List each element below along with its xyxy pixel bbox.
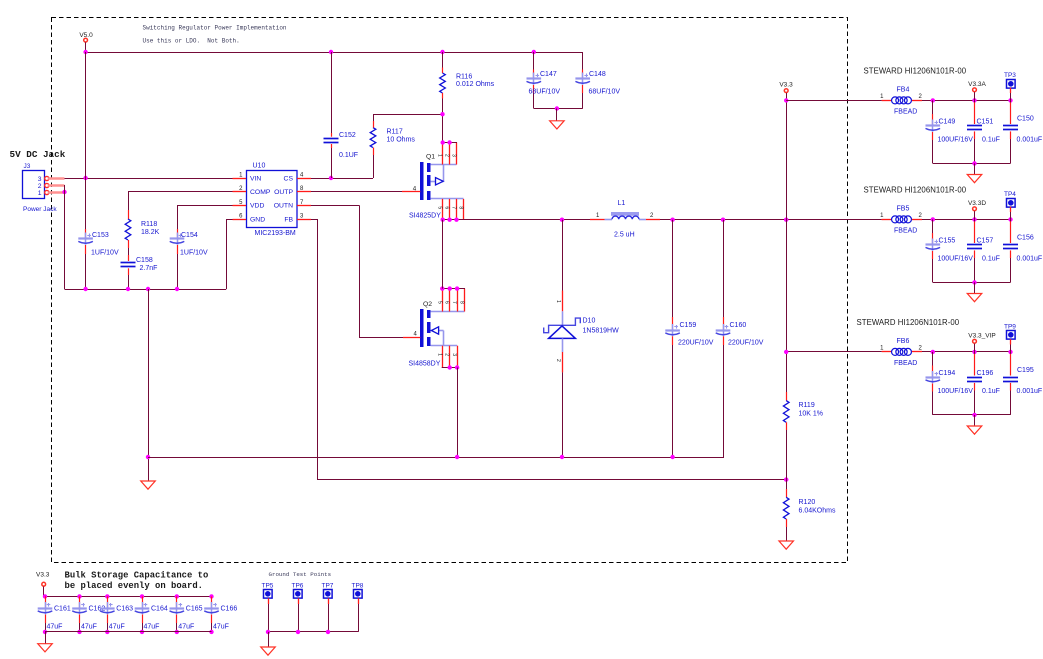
- svg-text:C149: C149: [939, 119, 956, 126]
- svg-text:6: 6: [444, 301, 450, 304]
- svg-text:FBEAD: FBEAD: [894, 109, 917, 116]
- svg-text:Switching Regulator Power Impl: Switching Regulator Power Implementation: [143, 25, 287, 32]
- svg-text:3: 3: [451, 353, 457, 356]
- svg-text:FB: FB: [284, 216, 293, 223]
- svg-text:2.7nF: 2.7nF: [140, 265, 158, 272]
- svg-text:Bulk Storage Capacitance to: Bulk Storage Capacitance to: [65, 571, 209, 581]
- svg-text:5V DC Jack: 5V DC Jack: [10, 149, 66, 160]
- svg-text:Use this or LDO. Not Both.: Use this or LDO. Not Both.: [143, 38, 240, 45]
- svg-text:C165: C165: [186, 606, 203, 613]
- svg-text:STEWARD HI1206N101R-00: STEWARD HI1206N101R-00: [857, 318, 960, 327]
- svg-text:2: 2: [555, 359, 561, 362]
- svg-text:C147: C147: [540, 71, 557, 78]
- svg-text:VIN: VIN: [250, 175, 261, 182]
- svg-text:C161: C161: [54, 606, 71, 613]
- svg-text:V3.3: V3.3: [779, 82, 793, 89]
- svg-text:CS: CS: [284, 175, 294, 182]
- svg-text:R120: R120: [799, 499, 816, 506]
- svg-text:C164: C164: [151, 606, 168, 613]
- svg-text:8: 8: [459, 301, 465, 304]
- svg-text:TP4: TP4: [1004, 191, 1016, 198]
- svg-text:Ground Test Points: Ground Test Points: [269, 571, 332, 578]
- svg-text:220UF/10V: 220UF/10V: [728, 340, 764, 347]
- svg-text:C163: C163: [116, 606, 133, 613]
- svg-text:1: 1: [436, 353, 442, 356]
- svg-text:C166: C166: [221, 606, 238, 613]
- svg-text:0.1UF: 0.1UF: [339, 152, 358, 159]
- svg-text:47uF: 47uF: [213, 624, 229, 631]
- svg-text:FBEAD: FBEAD: [894, 228, 917, 235]
- svg-text:0.012 Ohms: 0.012 Ohms: [456, 81, 495, 88]
- svg-text:47uF: 47uF: [144, 624, 160, 631]
- svg-text:TP9: TP9: [1004, 324, 1016, 331]
- svg-text:2: 2: [38, 183, 42, 190]
- svg-text:TP6: TP6: [292, 583, 304, 590]
- svg-text:6: 6: [444, 206, 450, 209]
- svg-text:1: 1: [555, 300, 561, 303]
- svg-text:0.1uF: 0.1uF: [982, 388, 1000, 395]
- svg-text:SI4825DY: SI4825DY: [409, 213, 441, 220]
- svg-text:C148: C148: [589, 71, 606, 78]
- svg-text:MIC2193-BM: MIC2193-BM: [255, 230, 296, 237]
- svg-text:47uF: 47uF: [178, 624, 194, 631]
- svg-text:4: 4: [413, 186, 417, 193]
- svg-text:R118: R118: [141, 221, 157, 228]
- svg-text:FB6: FB6: [897, 338, 910, 345]
- svg-text:D10: D10: [583, 318, 596, 325]
- svg-text:C155: C155: [939, 238, 956, 245]
- svg-text:C153: C153: [92, 232, 109, 239]
- svg-text:FBEAD: FBEAD: [894, 360, 917, 367]
- svg-text:V3.3A: V3.3A: [968, 81, 986, 88]
- svg-text:5: 5: [436, 301, 442, 304]
- svg-text:TP3: TP3: [1004, 72, 1016, 79]
- svg-text:0.1uF: 0.1uF: [982, 137, 1000, 144]
- svg-text:C160: C160: [730, 322, 747, 329]
- svg-text:V3.3_VIP: V3.3_VIP: [968, 333, 995, 340]
- svg-text:Power Jack: Power Jack: [23, 206, 57, 213]
- svg-text:18.2K: 18.2K: [141, 229, 160, 236]
- svg-text:TP5: TP5: [262, 583, 274, 590]
- svg-text:Q2: Q2: [423, 301, 432, 308]
- svg-text:C157: C157: [977, 238, 994, 245]
- svg-text:VDD: VDD: [250, 203, 264, 210]
- svg-text:J3: J3: [24, 163, 31, 170]
- svg-text:OUTN: OUTN: [274, 203, 293, 210]
- svg-text:1UF/10V: 1UF/10V: [180, 250, 208, 257]
- svg-text:0.1uF: 0.1uF: [982, 256, 1000, 263]
- svg-text:V3.3: V3.3: [36, 572, 50, 579]
- svg-text:C194: C194: [939, 370, 956, 377]
- svg-text:0.001uF: 0.001uF: [1017, 388, 1043, 395]
- svg-text:OUTP: OUTP: [274, 189, 293, 196]
- svg-text:C150: C150: [1017, 116, 1034, 123]
- svg-text:6.04KOhms: 6.04KOhms: [799, 508, 836, 515]
- svg-text:47uF: 47uF: [109, 624, 125, 631]
- svg-text:8: 8: [458, 206, 464, 209]
- svg-text:10 Ohms: 10 Ohms: [387, 137, 416, 144]
- svg-text:100UF/16V: 100UF/16V: [938, 256, 974, 263]
- svg-text:C158: C158: [136, 257, 153, 264]
- svg-text:2: 2: [444, 353, 450, 356]
- svg-text:1N5819HW: 1N5819HW: [583, 328, 620, 335]
- svg-text:3: 3: [451, 154, 457, 157]
- svg-text:be placed evenly on board.: be placed evenly on board.: [65, 581, 203, 591]
- svg-text:FB5: FB5: [897, 205, 910, 212]
- svg-text:5: 5: [437, 206, 443, 209]
- svg-text:C195: C195: [1017, 367, 1034, 374]
- svg-text:R117: R117: [387, 129, 403, 136]
- svg-text:TP7: TP7: [322, 583, 334, 590]
- svg-text:R116: R116: [456, 74, 472, 81]
- svg-text:68UF/10V: 68UF/10V: [589, 89, 621, 96]
- svg-text:C196: C196: [977, 370, 994, 377]
- svg-text:SI4858DY: SI4858DY: [409, 361, 441, 368]
- svg-text:STEWARD HI1206N101R-00: STEWARD HI1206N101R-00: [864, 186, 967, 195]
- svg-text:68UF/10V: 68UF/10V: [529, 89, 561, 96]
- svg-text:COMP: COMP: [250, 189, 271, 196]
- svg-text:10K 1%: 10K 1%: [799, 411, 824, 418]
- svg-text:U10: U10: [253, 163, 266, 170]
- svg-text:C152: C152: [339, 132, 356, 139]
- svg-text:0.001uF: 0.001uF: [1017, 256, 1043, 263]
- svg-text:Q1: Q1: [426, 154, 435, 161]
- svg-text:1UF/10V: 1UF/10V: [91, 250, 119, 257]
- svg-text:47uF: 47uF: [81, 624, 97, 631]
- svg-text:C151: C151: [977, 119, 994, 126]
- svg-text:C159: C159: [680, 322, 697, 329]
- svg-text:2: 2: [444, 154, 450, 157]
- svg-text:7: 7: [451, 301, 457, 304]
- svg-text:7: 7: [451, 206, 457, 209]
- svg-text:R119: R119: [799, 402, 815, 409]
- svg-text:TP8: TP8: [352, 583, 364, 590]
- svg-text:1: 1: [38, 190, 42, 197]
- svg-text:V3.3D: V3.3D: [968, 200, 986, 207]
- svg-text:220UF/10V: 220UF/10V: [678, 340, 714, 347]
- svg-text:47uF: 47uF: [47, 624, 63, 631]
- svg-text:C156: C156: [1017, 235, 1034, 242]
- svg-text:L1: L1: [618, 200, 626, 207]
- svg-text:STEWARD HI1206N101R-00: STEWARD HI1206N101R-00: [864, 67, 967, 76]
- svg-text:100UF/16V: 100UF/16V: [938, 388, 974, 395]
- svg-text:C154: C154: [181, 232, 198, 239]
- svg-text:GND: GND: [250, 216, 265, 223]
- svg-text:2.5 uH: 2.5 uH: [614, 232, 635, 239]
- svg-text:0.001uF: 0.001uF: [1017, 137, 1043, 144]
- svg-text:FB4: FB4: [897, 86, 910, 93]
- svg-text:1: 1: [437, 154, 443, 157]
- svg-text:3: 3: [38, 176, 42, 183]
- svg-text:100UF/16V: 100UF/16V: [938, 137, 974, 144]
